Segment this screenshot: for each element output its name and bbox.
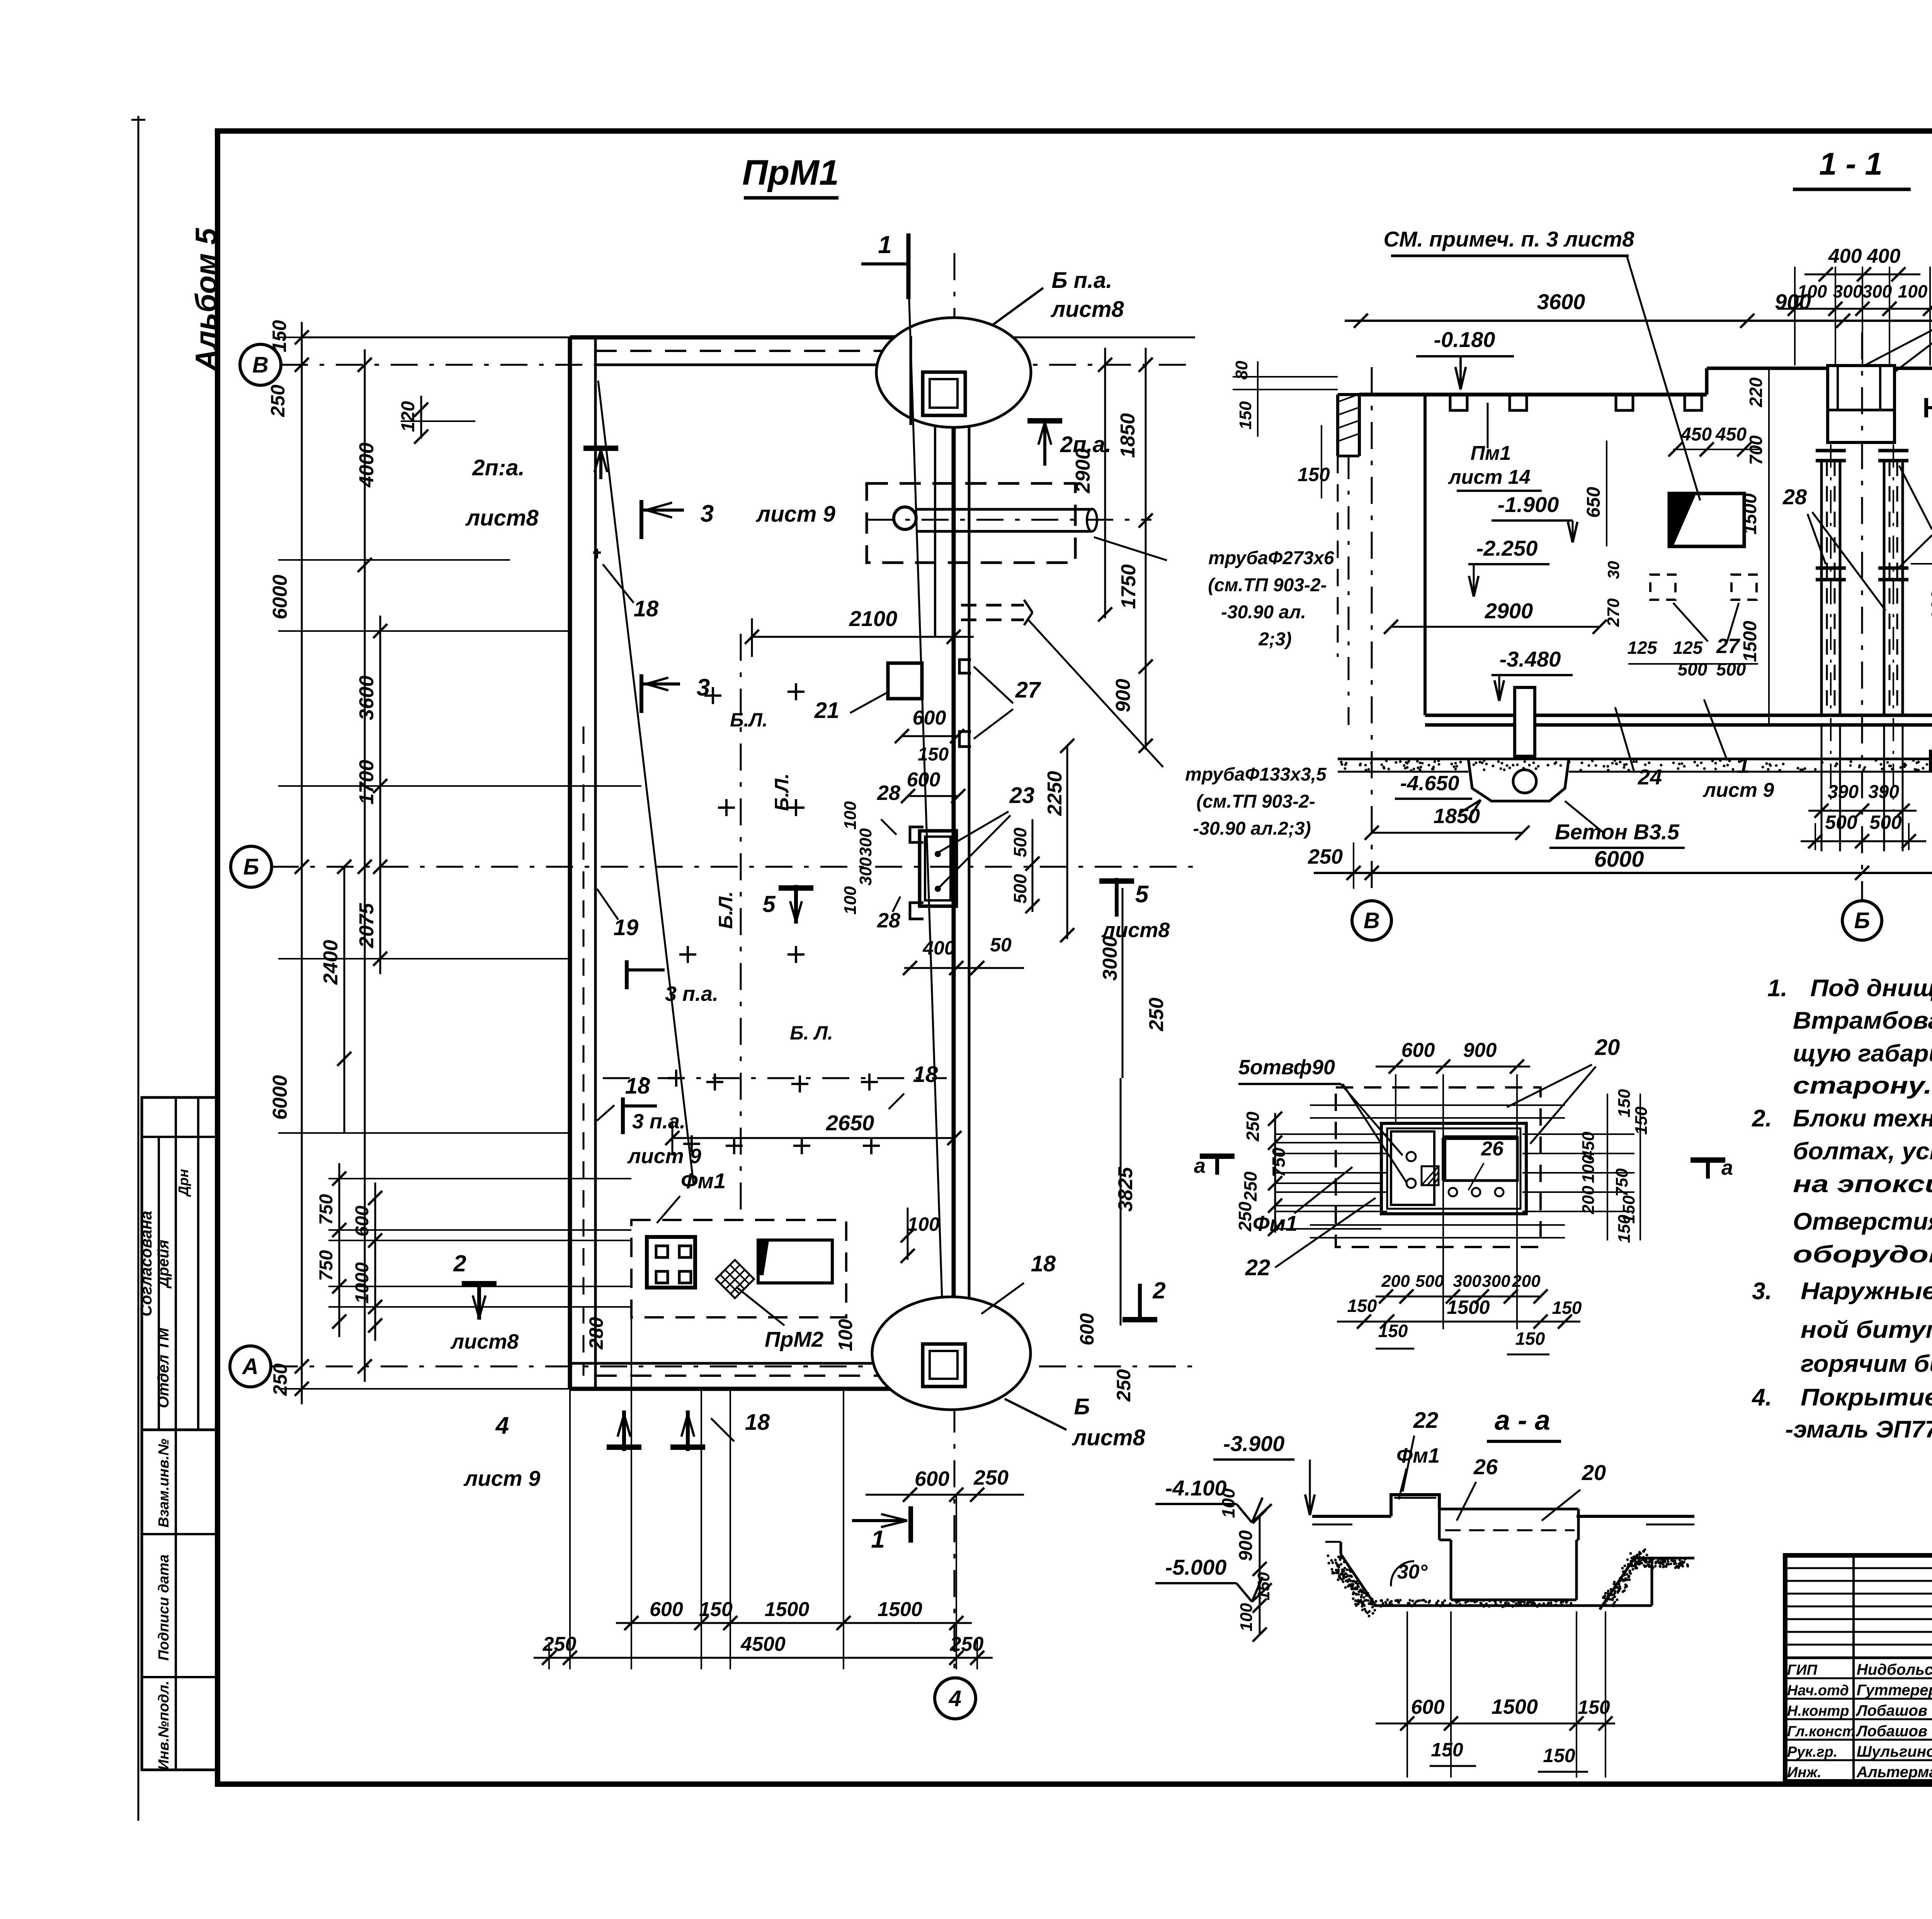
svg-text:150: 150 (1254, 1572, 1273, 1601)
svg-text:лист 9: лист 9 (755, 502, 835, 527)
svg-text:22: 22 (1413, 1408, 1439, 1433)
svg-text:26: 26 (1481, 1138, 1504, 1160)
svg-text:6000: 6000 (269, 1075, 291, 1120)
svg-text:220: 220 (1746, 377, 1766, 407)
svg-text:5отвф90: 5отвф90 (1238, 1056, 1335, 1079)
svg-text:3825: 3825 (1114, 1167, 1137, 1212)
svg-text:450: 450 (1680, 424, 1712, 445)
svg-text:Инв.№подл.: Инв.№подл. (156, 1681, 172, 1770)
svg-text:Под днищем приямка выполнить п: Под днищем приямка выполнить подготовку … (1810, 975, 1932, 1002)
svg-text:24: 24 (1638, 765, 1662, 789)
svg-text:150: 150 (699, 1598, 733, 1621)
svg-text:300: 300 (856, 857, 875, 886)
svg-text:Н.контр: Н.контр (1787, 1703, 1849, 1719)
svg-text:а: а (1194, 1154, 1206, 1177)
svg-text:старону.: старону. (1793, 1072, 1932, 1099)
svg-text:Гл.конст: Гл.конст (1787, 1723, 1855, 1740)
svg-text:20: 20 (1595, 1035, 1620, 1060)
svg-text:6000: 6000 (1594, 847, 1644, 872)
svg-text:150: 150 (1615, 1089, 1634, 1118)
svg-text:650: 650 (1583, 487, 1604, 518)
svg-text:а: а (1721, 1156, 1733, 1179)
svg-text:250: 250 (1235, 1201, 1255, 1232)
svg-text:лист 9: лист 9 (627, 1145, 701, 1168)
svg-text:оборудования.: оборудования. (1793, 1241, 1932, 1268)
svg-text:600: 600 (1401, 1039, 1435, 1062)
svg-text:-4.650: -4.650 (1400, 772, 1459, 795)
svg-text:250: 250 (1145, 998, 1168, 1032)
svg-text:900: 900 (1112, 679, 1134, 713)
svg-text:болтах, устанавливаемых в прос: болтах, устанавливаемых в просверленные … (1793, 1138, 1932, 1165)
svg-text:270: 270 (1604, 598, 1623, 627)
svg-text:2075: 2075 (355, 903, 378, 948)
svg-text:В: В (252, 352, 269, 378)
svg-text:4: 4 (949, 1686, 961, 1711)
svg-text:-1.900: -1.900 (1498, 492, 1559, 517)
svg-text:500: 500 (1716, 659, 1746, 679)
svg-text:-2.250: -2.250 (1476, 536, 1538, 560)
svg-text:лист8: лист8 (465, 505, 539, 531)
svg-text:Б. Л.: Б. Л. (790, 1022, 833, 1044)
svg-text:лист 9: лист 9 (1702, 779, 1774, 801)
svg-text:23: 23 (1009, 783, 1035, 808)
svg-text:лист8: лист8 (450, 1330, 519, 1353)
svg-text:100: 100 (841, 801, 860, 830)
svg-text:лист8: лист8 (1071, 1425, 1145, 1450)
svg-text:Наружные поверхности приямка о: Наружные поверхности приямка огрунтовать… (1801, 1278, 1932, 1305)
svg-text:2250: 2250 (1044, 771, 1066, 816)
svg-text:250: 250 (269, 1363, 291, 1396)
svg-text:1500: 1500 (1492, 1695, 1538, 1718)
svg-text:250: 250 (950, 1633, 984, 1655)
svg-text:Лобашов: Лобашов (1855, 1723, 1927, 1740)
svg-text:2400: 2400 (320, 940, 342, 985)
svg-text:150: 150 (1378, 1321, 1408, 1341)
svg-text:Б.Л.: Б.Л. (715, 891, 736, 929)
svg-text:-эмаль ЭП773 кремовая ГОСТ2314: -эмаль ЭП773 кремовая ГОСТ23143-83. (1785, 1416, 1932, 1443)
svg-text:250: 250 (1308, 845, 1343, 868)
svg-text:250: 250 (1240, 1171, 1260, 1201)
svg-text:(см.ТП 903-2-: (см.ТП 903-2- (1196, 791, 1315, 812)
svg-text:150: 150 (1347, 1296, 1377, 1316)
svg-text:3: 3 (697, 674, 710, 701)
svg-text:Рук.гр.: Рук.гр. (1787, 1744, 1837, 1760)
svg-text:600: 600 (1076, 1313, 1098, 1346)
svg-text:1: 1 (878, 231, 892, 259)
svg-text:250: 250 (267, 384, 289, 417)
svg-text:500: 500 (1678, 659, 1708, 679)
svg-text:4: 4 (495, 1412, 509, 1439)
svg-text:100: 100 (1898, 281, 1928, 301)
svg-text:600: 600 (913, 707, 946, 729)
svg-text:Пм1: Пм1 (1471, 442, 1511, 464)
svg-text:150: 150 (1515, 1329, 1545, 1349)
svg-text:Согласована: Согласована (137, 1211, 155, 1317)
svg-text:-0.180: -0.180 (1434, 327, 1495, 352)
svg-text:150: 150 (918, 744, 949, 765)
svg-text:2100: 2100 (849, 606, 898, 631)
svg-text:на эпоксидном клее.: на эпоксидном клее. (1793, 1171, 1932, 1198)
svg-text:Бетон В3.5: Бетон В3.5 (1555, 820, 1680, 844)
svg-text:Фм1: Фм1 (1396, 1444, 1440, 1467)
svg-text:600: 600 (915, 1467, 949, 1490)
svg-text:1750: 1750 (1117, 564, 1140, 609)
svg-text:2: 2 (1152, 1278, 1165, 1303)
svg-text:120: 120 (398, 401, 418, 432)
svg-text:3 п.а.: 3 п.а. (665, 982, 718, 1005)
svg-text:600: 600 (650, 1598, 683, 1621)
svg-text:3.: 3. (1752, 1278, 1772, 1305)
svg-text:1850: 1850 (1117, 413, 1139, 458)
svg-text:лист 14: лист 14 (1447, 466, 1531, 488)
svg-text:ПрМ2: ПрМ2 (765, 1327, 823, 1351)
svg-text:лист 9: лист 9 (463, 1466, 541, 1490)
svg-text:Фм1: Фм1 (1253, 1211, 1298, 1235)
svg-text:-4.100: -4.100 (1165, 1476, 1227, 1500)
svg-text:300: 300 (856, 828, 875, 857)
svg-text:500: 500 (1825, 811, 1857, 833)
svg-text:600: 600 (1411, 1696, 1445, 1718)
svg-text:трубаФ133х3,5: трубаФ133х3,5 (1185, 764, 1327, 785)
svg-text:Нач.отд: Нач.отд (1787, 1683, 1849, 1699)
svg-text:450: 450 (1715, 424, 1747, 445)
svg-text:3600: 3600 (1537, 289, 1585, 314)
svg-text:200: 200 (1381, 1272, 1410, 1291)
svg-text:150: 150 (1298, 464, 1330, 485)
svg-text:Подписи дата: Подписи дата (156, 1555, 172, 1661)
svg-text:18: 18 (634, 596, 659, 621)
svg-text:28: 28 (877, 909, 900, 932)
svg-text:Гуттерерский: Гуттерерский (1857, 1682, 1932, 1699)
svg-text:100: 100 (1798, 281, 1827, 301)
svg-text:390: 390 (1868, 782, 1899, 802)
svg-text:125: 125 (1628, 638, 1658, 658)
svg-text:900: 900 (1236, 1530, 1256, 1561)
svg-text:750: 750 (1612, 1168, 1631, 1197)
svg-text:600: 600 (352, 1206, 372, 1237)
svg-text:1: 1 (1737, 753, 1749, 777)
svg-text:500: 500 (1869, 811, 1902, 833)
svg-text:2650: 2650 (826, 1111, 874, 1135)
svg-text:1500: 1500 (765, 1598, 810, 1621)
svg-text:100: 100 (907, 1213, 940, 1235)
svg-text:300: 300 (1453, 1272, 1481, 1291)
svg-text:300: 300 (1833, 281, 1863, 301)
svg-text:200: 200 (1512, 1272, 1541, 1291)
svg-text:6000: 6000 (269, 575, 291, 619)
svg-text:100: 100 (1237, 1603, 1256, 1631)
svg-text:1 - 1: 1 - 1 (1819, 146, 1883, 182)
svg-text:Б п.а.: Б п.а. (1051, 268, 1112, 293)
svg-text:СМ. примеч. п. 3 лист8: СМ. примеч. п. 3 лист8 (1384, 227, 1635, 251)
svg-text:150: 150 (1552, 1298, 1582, 1318)
svg-text:1000: 1000 (352, 1262, 372, 1303)
svg-text:2900: 2900 (1072, 448, 1094, 493)
svg-text:-30.90 ал.: -30.90 ал. (1221, 602, 1306, 623)
svg-text:ПрМ1: ПрМ1 (742, 153, 839, 192)
svg-text:а - а: а - а (1495, 1405, 1550, 1436)
svg-text:1500: 1500 (1740, 621, 1760, 662)
svg-text:150: 150 (1632, 1106, 1651, 1135)
svg-text:Покрытие поверхностей закладны: Покрытие поверхностей закладных деталей … (1801, 1384, 1932, 1411)
svg-text:500: 500 (1010, 874, 1030, 903)
svg-text:150: 150 (269, 320, 290, 352)
svg-text:3600: 3600 (355, 675, 378, 720)
svg-text:2: 2 (453, 1250, 466, 1276)
svg-text:-3.900: -3.900 (1223, 1431, 1285, 1456)
svg-text:5: 5 (762, 891, 776, 917)
svg-text:Лобашов: Лобашов (1855, 1702, 1927, 1719)
svg-text:400: 400 (1867, 245, 1901, 267)
svg-text:1500: 1500 (1740, 493, 1760, 534)
svg-text:1: 1 (871, 1525, 885, 1553)
svg-text:Инж.: Инж. (1787, 1764, 1821, 1781)
svg-text:28: 28 (1782, 485, 1807, 509)
svg-text:150: 150 (1615, 1215, 1634, 1243)
svg-text:Нидбольский: Нидбольский (1857, 1661, 1932, 1678)
svg-text:250: 250 (973, 1466, 1009, 1489)
svg-text:500: 500 (1010, 827, 1030, 857)
svg-text:22: 22 (1245, 1255, 1270, 1280)
svg-text:Альтерман: Альтерман (1856, 1764, 1932, 1781)
svg-text:-5.000: -5.000 (1165, 1555, 1227, 1579)
svg-text:500: 500 (1415, 1272, 1444, 1291)
svg-text:26: 26 (1473, 1455, 1498, 1479)
svg-text:ной битумной грунтовкой с посл: ной битумной грунтовкой с последующей по… (1801, 1317, 1932, 1343)
svg-text:Б: Б (1074, 1394, 1090, 1419)
svg-text:-3.480: -3.480 (1500, 647, 1561, 671)
svg-text:3000: 3000 (1099, 936, 1121, 981)
svg-text:3: 3 (701, 500, 714, 527)
svg-text:(см.ТП 903-2-: (см.ТП 903-2- (1208, 575, 1327, 595)
svg-text:2.: 2. (1752, 1105, 1772, 1132)
svg-text:280: 280 (585, 1317, 607, 1350)
svg-text:-30.90 ал.2;3): -30.90 ал.2;3) (1193, 818, 1311, 839)
svg-text:125: 125 (1673, 638, 1703, 658)
svg-text:Альбом 5: Альбом 5 (189, 227, 223, 371)
svg-text:300: 300 (1482, 1272, 1510, 1291)
svg-text:щую габариты днища приямка на: щую габариты днища приямка на 100 мм в к… (1793, 1040, 1932, 1067)
svg-text:390: 390 (1828, 782, 1859, 802)
svg-text:750: 750 (1269, 1147, 1289, 1177)
svg-text:150: 150 (1236, 401, 1255, 430)
svg-text:50: 50 (990, 934, 1012, 956)
svg-text:18: 18 (745, 1410, 770, 1435)
svg-text:Б: Б (1854, 908, 1870, 933)
svg-text:1700: 1700 (355, 760, 378, 805)
svg-text:горячим битумом марки марки БН: горячим битумом марки марки БН-IV за два… (1801, 1351, 1932, 1377)
svg-text:4500: 4500 (740, 1633, 786, 1655)
svg-text:Блоки технологического оборудо: Блоки технологического оборудования креп… (1793, 1105, 1932, 1132)
svg-text:5: 5 (1135, 881, 1149, 908)
svg-text:1850: 1850 (1434, 805, 1480, 828)
svg-text:300: 300 (1862, 281, 1892, 301)
svg-text:28: 28 (877, 781, 900, 805)
svg-text:лист8: лист8 (1050, 297, 1124, 322)
svg-text:250: 250 (1113, 1369, 1134, 1402)
svg-text:750: 750 (316, 1194, 337, 1225)
svg-text:20: 20 (1582, 1460, 1606, 1485)
svg-text:Отдел ТМ: Отдел ТМ (155, 1327, 172, 1408)
svg-text:2п:а.: 2п:а. (472, 455, 524, 480)
svg-text:1.: 1. (1767, 975, 1787, 1002)
svg-text:100: 100 (1928, 590, 1932, 621)
svg-text:Фм1: Фм1 (681, 1169, 726, 1193)
svg-text:100: 100 (1579, 1155, 1598, 1183)
svg-text:4.: 4. (1751, 1384, 1772, 1411)
svg-text:ГИП: ГИП (1787, 1662, 1818, 1678)
svg-text:1500: 1500 (1447, 1296, 1490, 1318)
svg-text:900: 900 (1463, 1039, 1497, 1062)
svg-text:400: 400 (1828, 245, 1862, 267)
svg-text:Б.Л.: Б.Л. (730, 709, 768, 731)
svg-text:1500: 1500 (878, 1598, 922, 1621)
svg-text:150: 150 (1543, 1745, 1575, 1766)
svg-text:Дрн: Дрн (175, 1169, 191, 1197)
svg-text:3 п.а.: 3 п.а. (632, 1110, 685, 1133)
svg-text:В: В (1364, 908, 1380, 933)
svg-text:100: 100 (835, 1319, 856, 1351)
svg-text:30: 30 (1604, 561, 1622, 579)
svg-text:Дрейя: Дрейя (155, 1240, 172, 1289)
svg-text:Б: Б (243, 854, 259, 880)
svg-text:400: 400 (922, 937, 955, 959)
svg-text:18: 18 (1031, 1251, 1056, 1276)
svg-text:2900: 2900 (1485, 599, 1533, 623)
svg-text:18: 18 (625, 1073, 650, 1099)
svg-text:2;3): 2;3) (1258, 629, 1291, 650)
svg-text:Втрамбованного в грунт толщина: Втрамбованного в грунт толщинай 100 мм, … (1793, 1007, 1932, 1034)
svg-text:750: 750 (316, 1250, 337, 1281)
svg-text:4000: 4000 (355, 442, 378, 488)
svg-text:18: 18 (913, 1062, 938, 1087)
svg-text:150: 150 (1431, 1739, 1463, 1761)
svg-text:21: 21 (814, 698, 840, 723)
svg-text:100: 100 (1218, 1488, 1238, 1518)
svg-text:трубаФ273х6: трубаФ273х6 (1208, 548, 1334, 568)
svg-text:Шульгино: Шульгино (1857, 1743, 1932, 1760)
svg-text:100: 100 (841, 886, 860, 915)
svg-text:Отверстия ф 17 сверлятся по ме: Отверстия ф 17 сверлятся по месту после … (1793, 1208, 1932, 1235)
svg-text:Взам.инв.№: Взам.инв.№ (156, 1439, 172, 1528)
svg-text:600: 600 (907, 769, 940, 791)
svg-text:250: 250 (543, 1633, 577, 1655)
svg-text:27: 27 (1015, 677, 1041, 703)
svg-text:200: 200 (1579, 1186, 1598, 1215)
svg-text:Б.Л.: Б.Л. (771, 773, 793, 811)
svg-text:250: 250 (1243, 1111, 1263, 1142)
svg-text:А: А (241, 1354, 259, 1379)
